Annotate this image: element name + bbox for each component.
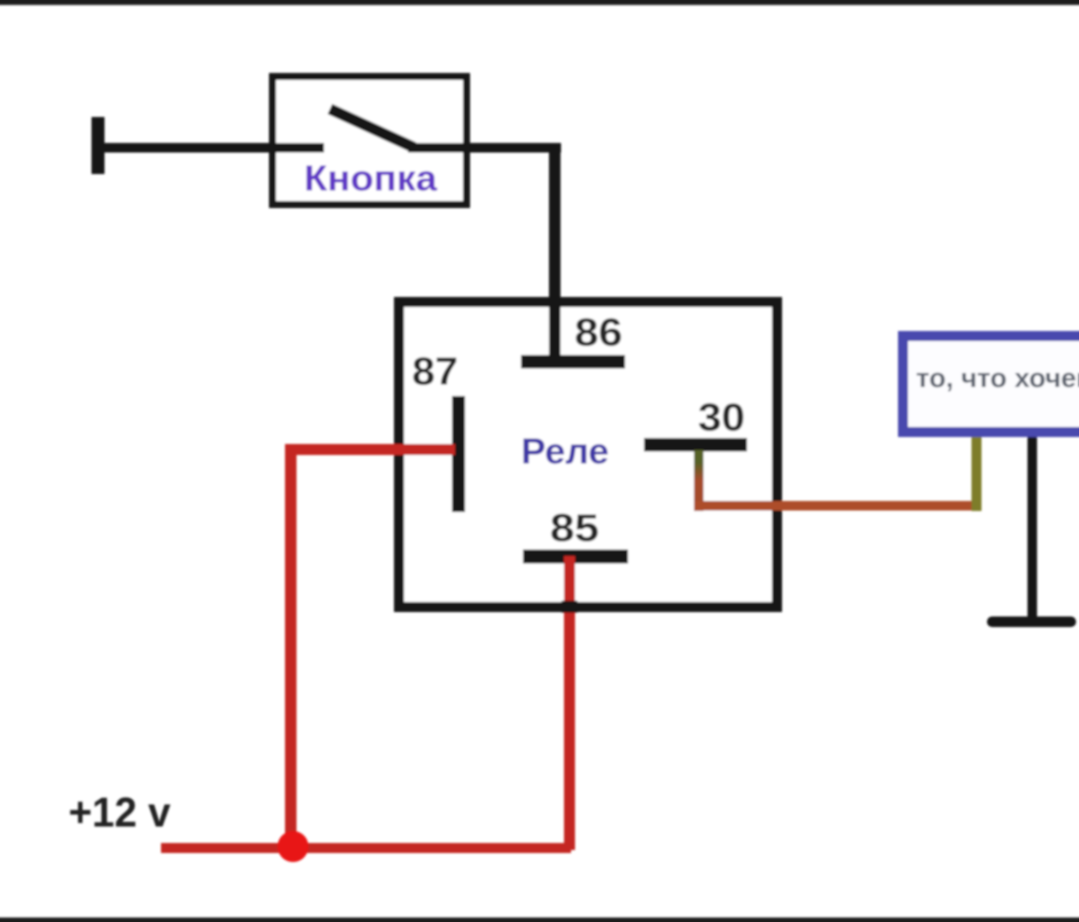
svg-text:Реле: Реле	[521, 431, 609, 472]
relay box (Реле enclosure)	[399, 302, 777, 607]
load box (то, что хочешь enclosure)	[903, 336, 1079, 432]
red wire: +12v bottom horizontal	[161, 843, 571, 853]
relay bottom border over 85 wire	[562, 601, 578, 613]
green wire segment at pin 30	[694, 450, 704, 466]
svg-text:85: 85	[550, 507, 599, 550]
pin 86 bar	[521, 355, 625, 369]
wire: terminal to switch left contact	[100, 143, 324, 153]
pin 30 bar	[644, 438, 747, 452]
ground bar	[987, 617, 1076, 628]
red wire: pin 85 down vertical	[564, 556, 575, 850]
junction dot	[278, 831, 309, 862]
top border bar	[0, 0, 1079, 5]
black wire: load box down to ground	[1028, 433, 1038, 617]
wire: switch down to relay pin 86	[549, 143, 561, 361]
switch right contact wire	[408, 143, 561, 153]
svg-text:+12 v: +12 v	[69, 789, 172, 836]
svg-text:Кнопка: Кнопка	[304, 158, 438, 199]
svg-text:то, что хочешь: то, что хочешь	[916, 363, 1079, 393]
red wire: left vertical riser	[285, 444, 297, 850]
svg-text:30: 30	[698, 397, 745, 440]
switch box (Кнопка enclosure)	[273, 77, 467, 205]
bottom border bar	[0, 918, 1079, 922]
red wire: feed into pin 87	[285, 444, 455, 455]
brown wire: vertical from pin 30	[694, 462, 704, 511]
olive wire: up to load box	[972, 433, 982, 511]
pin 87 bar	[452, 396, 465, 512]
brown wire: horizontal to load	[694, 501, 977, 511]
svg-text:86: 86	[575, 312, 623, 355]
svg-text:87: 87	[412, 351, 458, 394]
pin 85 bar	[523, 550, 628, 564]
switch blade	[330, 109, 414, 148]
supply terminal stub (left battery contact)	[92, 117, 105, 174]
